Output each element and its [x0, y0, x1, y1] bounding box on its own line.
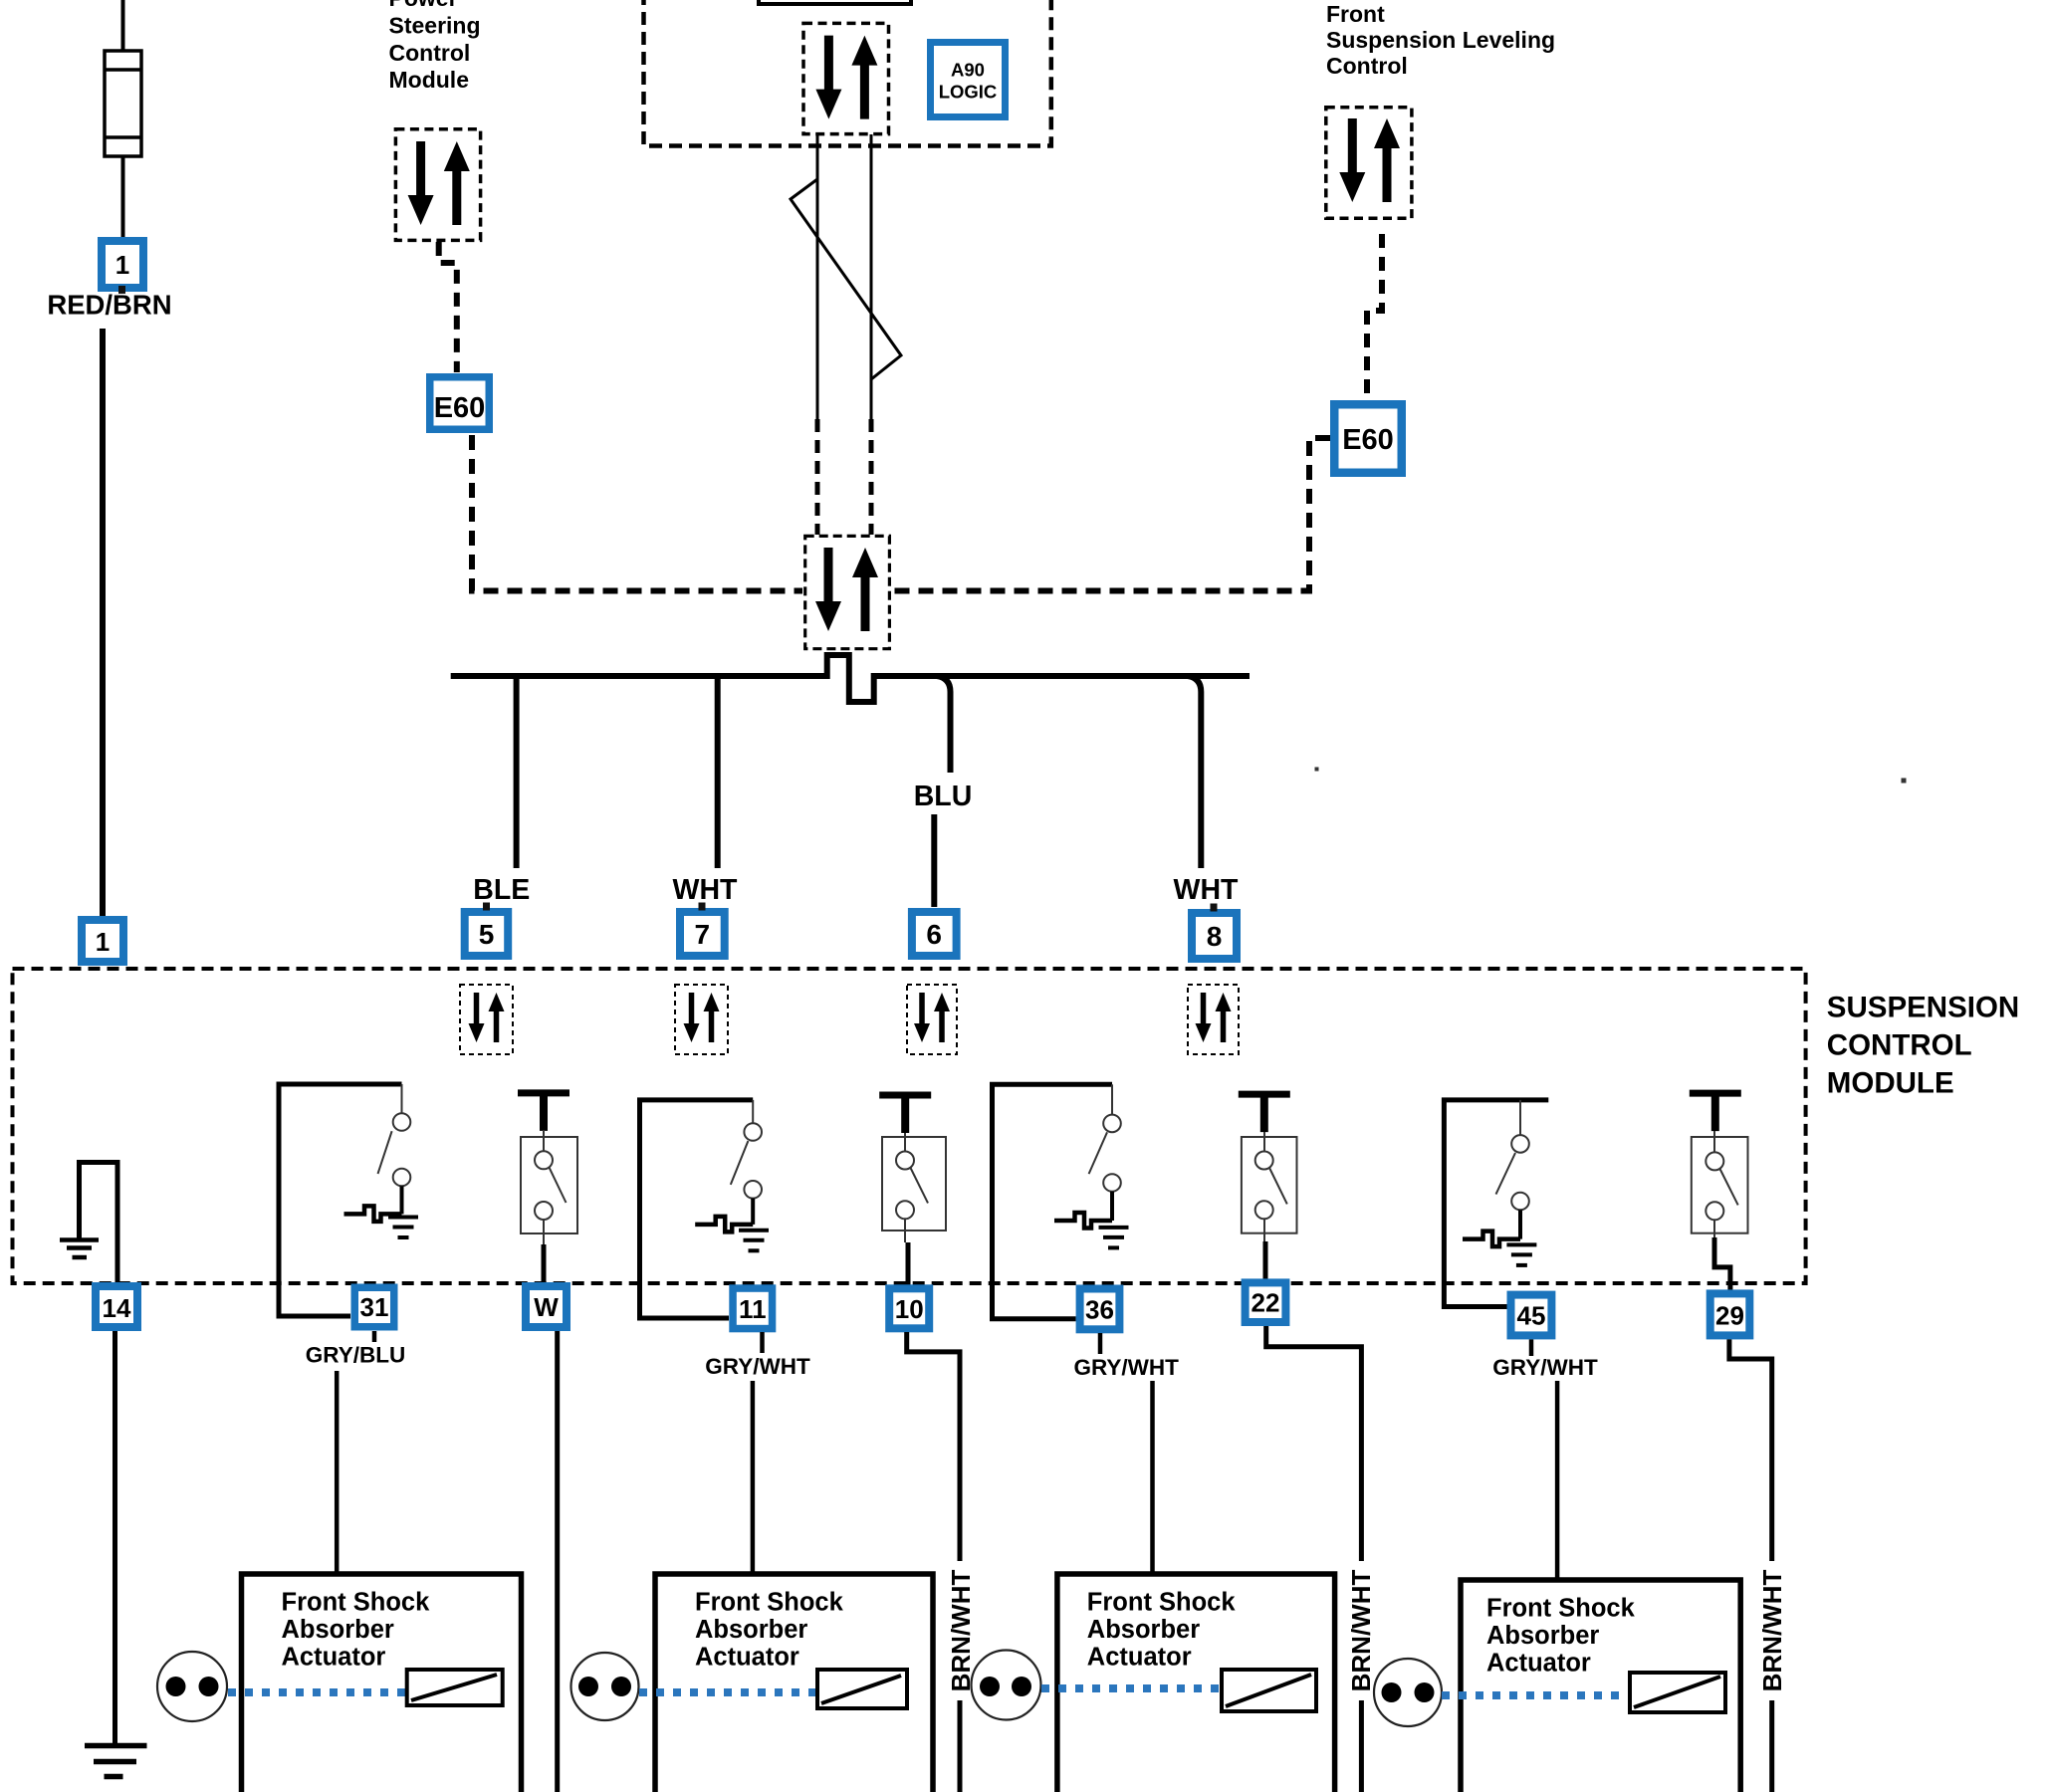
svg-text:GRY/BLU: GRY/BLU [306, 1343, 405, 1368]
connector arrow box (top module) [803, 23, 889, 133]
svg-text:1: 1 [96, 927, 110, 957]
svg-text:Control: Control [1326, 53, 1408, 79]
svg-text:RED/BRN: RED/BRN [47, 290, 171, 321]
A90 LOGIC box [927, 39, 1009, 120]
wire drop pin 6 (hooked) [937, 676, 951, 773]
switch branch wire (pin 11) [640, 1100, 754, 1318]
svg-text:Front Shock: Front Shock [1486, 1595, 1636, 1623]
wire drop pin 5 [514, 676, 520, 868]
wire GRY/WHT to actuator 4 [1555, 1381, 1560, 1580]
dotted link 3 [1041, 1684, 1222, 1692]
svg-text:Front Shock: Front Shock [282, 1589, 431, 1617]
svg-text:10: 10 [895, 1294, 924, 1324]
supply T (pin 29 driver) [1690, 1093, 1741, 1131]
svg-text:MODULE: MODULE [1827, 1066, 1954, 1099]
connector circle 4 [1374, 1659, 1442, 1726]
connector circle 2 [571, 1653, 639, 1720]
supply T (pin 22 driver) [1239, 1094, 1290, 1132]
svg-text:Actuator: Actuator [1087, 1644, 1192, 1672]
pin box 14 [92, 1282, 141, 1331]
label BRN/WHT (pin 29 wire) [1757, 1561, 1787, 1700]
svg-text:36: 36 [1085, 1295, 1114, 1325]
white label box (cut off at top) [759, 0, 911, 4]
stub below pin 45 [1529, 1339, 1534, 1356]
svg-text:BLE: BLE [473, 874, 530, 906]
center connector arrow box [805, 536, 890, 648]
svg-text:22: 22 [1252, 1288, 1280, 1318]
svg-text:BRN/WHT: BRN/WHT [1757, 1570, 1787, 1692]
svg-text:8: 8 [1207, 921, 1223, 952]
label BRN/WHT (pin 10 wire) [946, 1561, 976, 1700]
wire RED/BRN to pin 1 [100, 329, 106, 916]
PWM pulse symbol (pin 11) [695, 1217, 753, 1232]
relay switch (pin 45) [1496, 1100, 1529, 1239]
driver transistor box (pin W) [521, 1130, 577, 1284]
svg-text:29: 29 [1715, 1301, 1744, 1331]
svg-text:BRN/WHT: BRN/WHT [946, 1570, 976, 1692]
svg-text:14: 14 [103, 1293, 131, 1323]
pin box 22 [1242, 1278, 1290, 1326]
dashed wire left into center connector [815, 419, 820, 535]
resistor element 4 [1630, 1673, 1725, 1712]
wire right from logic module [870, 134, 873, 419]
driver transistor box (pin 29) [1692, 1131, 1748, 1290]
wire pin 14 to chassis ground [113, 1331, 117, 1746]
svg-text:GRY/WHT: GRY/WHT [1073, 1355, 1179, 1380]
relay switch (pin 31) [378, 1084, 411, 1214]
svg-text:WHT: WHT [1174, 874, 1239, 906]
label SUSPENSION CONTROL MODULE [1827, 991, 2019, 1099]
label BRN/WHT (pin 22 wire) [1346, 1561, 1376, 1700]
dashed wire FSLC to E60 right [1367, 234, 1382, 399]
chassis ground (bottom left) [85, 1746, 147, 1777]
wire pin 10 to BRN/WHT drop [907, 1332, 960, 1792]
wire pin 22 to BRN/WHT drop [1266, 1326, 1362, 1792]
svg-text:Absorber: Absorber [1087, 1616, 1200, 1644]
PWM pulse symbol (pin 31) [344, 1206, 402, 1222]
wire pin 29 to BRN/WHT drop [1729, 1339, 1772, 1792]
svg-text:7: 7 [695, 919, 711, 950]
actuator box 2 [655, 1574, 933, 1792]
svg-text:11: 11 [739, 1294, 767, 1324]
dashed wire E60 down to dashed bus [472, 435, 802, 591]
svg-text:45: 45 [1517, 1301, 1546, 1331]
actuator box 1 [242, 1574, 522, 1792]
dashed wire E60 right down to dashed bus [892, 438, 1330, 591]
inner arrow box (pin 6) [907, 985, 957, 1054]
svg-text:E60: E60 [434, 392, 486, 424]
ground (pin 31 switch) [388, 1218, 418, 1238]
svg-text:5: 5 [479, 919, 495, 950]
inner arrow box (pin 7) [675, 985, 728, 1054]
switch branch wire (pin 31) [279, 1084, 402, 1316]
dotted link 1 [228, 1688, 406, 1696]
relay switch (pin 11) [731, 1100, 762, 1225]
dashed wire right into center connector [869, 419, 874, 535]
svg-text:Control: Control [389, 40, 471, 66]
pin box 36 [1076, 1285, 1124, 1334]
wire drop pin 8 (hooked) [1188, 676, 1201, 868]
pin box 31 [351, 1284, 398, 1331]
resistor element 2 [817, 1670, 907, 1708]
svg-text:Absorber: Absorber [695, 1616, 807, 1644]
relay switch (pin 36) [1089, 1084, 1121, 1221]
connector arrow box (Front Suspension Leveling Control) [1326, 108, 1412, 219]
dotted link 2 [639, 1688, 817, 1696]
svg-text:WHT: WHT [673, 874, 738, 906]
dotted link 4 [1442, 1691, 1630, 1699]
inner arrow box (pin 5) [460, 985, 513, 1054]
svg-text:Suspension Leveling: Suspension Leveling [1326, 27, 1555, 53]
supply T (pin 10 driver) [879, 1095, 931, 1133]
pin box 8 [1188, 904, 1241, 964]
wire GRY/WHT to actuator 3 [1150, 1381, 1155, 1574]
connector circle 3 [972, 1651, 1041, 1720]
wire drop pin 7 [715, 676, 721, 868]
top module dashed box (logic module) [644, 0, 1051, 146]
svg-text:E60: E60 [1342, 424, 1394, 456]
ground (pin 36 switch) [1099, 1228, 1129, 1248]
svg-text:Power: Power [389, 0, 458, 11]
SUSPENSION CONTROL MODULE dashed box [13, 969, 1806, 1283]
switch branch wire (pin 45) [1444, 1100, 1548, 1307]
connector arrow box (Power Steering Control Module) [395, 129, 480, 241]
inner arrow box (pin 8) [1188, 985, 1239, 1054]
resistor element 3 [1222, 1670, 1316, 1711]
svg-text:Steering: Steering [389, 12, 481, 38]
pin box 11 [729, 1284, 776, 1332]
wire GRY/WHT to actuator 2 [751, 1381, 756, 1574]
pin box 6 [908, 908, 961, 960]
svg-text:W: W [534, 1292, 559, 1322]
svg-text:BRN/WHT: BRN/WHT [1346, 1570, 1376, 1692]
svg-text:CONTROL: CONTROL [1827, 1028, 1972, 1061]
connector pin 1 (fuse output) [98, 237, 147, 294]
ground plate E60 (left) [426, 373, 493, 433]
twisted pair crossover symbol [791, 179, 901, 379]
svg-text:1: 1 [115, 250, 129, 280]
svg-text:Module: Module [389, 67, 470, 93]
svg-text:Absorber: Absorber [282, 1616, 394, 1644]
svg-text:Absorber: Absorber [1486, 1622, 1599, 1650]
svg-text:SUSPENSION: SUSPENSION [1827, 991, 2019, 1023]
svg-text:Front Shock: Front Shock [1087, 1589, 1237, 1617]
label Power Steering Control Module [389, 0, 481, 93]
pin box 10 [885, 1284, 933, 1332]
svg-text:Actuator: Actuator [695, 1644, 799, 1672]
wire BLU label to pin 6 [931, 814, 937, 907]
actuator box 3 [1057, 1574, 1335, 1792]
pin box 45 [1507, 1291, 1556, 1340]
stray mark 1 [1315, 768, 1319, 772]
driver transistor box (pin 10) [882, 1133, 946, 1286]
pin box W [522, 1282, 570, 1331]
wire left from logic module [816, 134, 819, 419]
actuator box 4 [1461, 1580, 1740, 1792]
connector circle 1 [157, 1652, 227, 1721]
fuse F1 top-left [105, 0, 141, 238]
svg-text:Actuator: Actuator [282, 1644, 386, 1672]
svg-text:A90: A90 [951, 60, 985, 81]
dashed wire PSCM to E60 [439, 242, 457, 372]
PWM pulse symbol (pin 45) [1463, 1232, 1520, 1247]
pin box 7 [676, 903, 729, 961]
label Front Suspension Leveling Control [1326, 1, 1555, 79]
internal ground branch (pin 14) [60, 1163, 117, 1283]
solid bus with notch [451, 655, 1250, 702]
svg-text:6: 6 [926, 919, 942, 950]
resistor element 1 [407, 1670, 503, 1705]
supply T (pin W driver) [518, 1093, 569, 1131]
pin box 5 [461, 903, 513, 961]
ground plate E60 (right) [1330, 400, 1406, 477]
svg-text:31: 31 [360, 1292, 389, 1322]
svg-text:Front Shock: Front Shock [695, 1589, 844, 1617]
svg-text:GRY/WHT: GRY/WHT [705, 1354, 810, 1379]
svg-text:BLU: BLU [914, 781, 973, 812]
ground (pin 45 switch) [1506, 1244, 1536, 1265]
stub below pin 11 [760, 1332, 765, 1353]
switch branch wire (pin 36) [993, 1084, 1113, 1318]
stray mark 2 [1902, 779, 1907, 784]
wire pin W down [555, 1331, 560, 1792]
pin box 29 [1707, 1289, 1754, 1339]
svg-text:GRY/WHT: GRY/WHT [1492, 1355, 1598, 1380]
driver transistor box (pin 22) [1242, 1132, 1297, 1280]
stub below pin 31 [372, 1331, 377, 1342]
svg-text:Actuator: Actuator [1486, 1650, 1591, 1678]
pin box 1 (module) [78, 916, 127, 966]
ground (pin 11 switch) [739, 1231, 769, 1251]
svg-text:LOGIC: LOGIC [939, 82, 998, 103]
stub below pin 36 [1098, 1333, 1103, 1354]
wire GRY/BLU to actuator 1 [335, 1371, 340, 1574]
svg-text:Front: Front [1326, 1, 1385, 27]
PWM pulse symbol (pin 36) [1054, 1213, 1112, 1229]
